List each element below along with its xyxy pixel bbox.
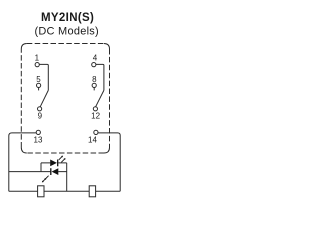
svg-text:4: 4 [93, 53, 98, 62]
svg-text:14: 14 [88, 135, 97, 144]
svg-text:MY2IN(S): MY2IN(S) [41, 12, 94, 24]
svg-text:(DC Models): (DC Models) [34, 26, 98, 38]
svg-text:12: 12 [91, 112, 100, 121]
svg-text:8: 8 [92, 75, 97, 84]
svg-text:1: 1 [35, 53, 40, 62]
svg-text:13: 13 [34, 135, 43, 144]
svg-text:9: 9 [38, 112, 43, 121]
svg-text:5: 5 [36, 75, 41, 84]
